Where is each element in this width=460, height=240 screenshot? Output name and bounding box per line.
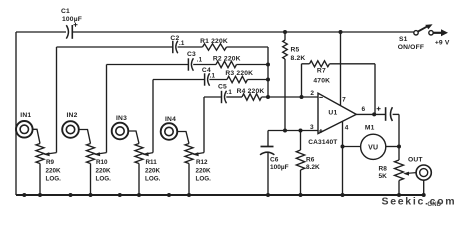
svg-text:.1: .1 (197, 57, 203, 64)
svg-text:LOG.: LOG. (96, 176, 112, 183)
svg-text:.1: .1 (179, 40, 185, 47)
svg-text:100µF: 100µF (270, 164, 289, 171)
svg-text:R11: R11 (146, 159, 158, 166)
svg-text:R6: R6 (306, 156, 315, 163)
svg-text:S1: S1 (399, 36, 408, 43)
svg-text:R2 220K: R2 220K (213, 55, 241, 62)
svg-text:R10: R10 (96, 159, 108, 166)
svg-text:220K: 220K (196, 168, 212, 175)
svg-text:R9: R9 (46, 159, 55, 166)
svg-text:R3 220K: R3 220K (225, 70, 253, 77)
svg-text:LOG.: LOG. (196, 176, 212, 183)
svg-text:R4 220K: R4 220K (237, 88, 265, 95)
svg-text:LOG.: LOG. (145, 176, 161, 183)
svg-text:IN2: IN2 (66, 112, 77, 119)
svg-text:220K: 220K (96, 168, 112, 175)
svg-text:IN4: IN4 (165, 116, 176, 123)
svg-text:U1: U1 (328, 110, 337, 117)
svg-text:100µF: 100µF (62, 16, 82, 23)
svg-text:.1: .1 (226, 89, 232, 96)
svg-text:5K: 5K (379, 173, 388, 180)
svg-text:CA3140T: CA3140T (308, 139, 337, 146)
svg-text:ON/OFF: ON/OFF (398, 44, 424, 51)
svg-text:8.2K: 8.2K (306, 164, 320, 171)
svg-text:+9 V: +9 V (435, 39, 450, 46)
svg-text:R7: R7 (317, 68, 326, 75)
svg-text:2: 2 (310, 90, 314, 97)
svg-text:Seekic.com: Seekic.com (382, 195, 457, 207)
svg-text:LOG.: LOG. (46, 176, 62, 183)
svg-text:220K: 220K (145, 168, 161, 175)
svg-text:IN1: IN1 (20, 112, 31, 119)
svg-text:220K: 220K (46, 168, 62, 175)
svg-text:.1: .1 (210, 72, 216, 79)
svg-text:R5: R5 (291, 47, 300, 54)
svg-text:470K: 470K (313, 78, 330, 85)
svg-text:8.2K: 8.2K (291, 55, 306, 62)
svg-text:3: 3 (310, 124, 314, 131)
svg-text:R8: R8 (379, 165, 388, 172)
svg-text:7: 7 (342, 97, 346, 104)
svg-text:C1: C1 (61, 8, 70, 15)
svg-text:R1 220K: R1 220K (200, 38, 228, 45)
svg-text:4: 4 (345, 125, 349, 132)
svg-text:VU: VU (368, 145, 378, 152)
svg-text:C6: C6 (270, 156, 279, 163)
svg-text:C3: C3 (187, 51, 196, 58)
svg-text:M1: M1 (365, 125, 375, 132)
svg-text:OUT: OUT (408, 157, 423, 164)
svg-text:IN3: IN3 (116, 115, 127, 122)
svg-text:R12: R12 (196, 159, 208, 166)
svg-text:6: 6 (361, 106, 365, 113)
